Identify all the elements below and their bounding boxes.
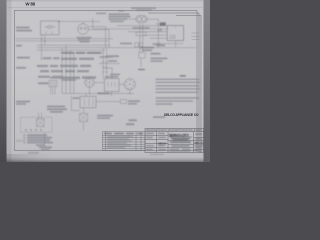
wire: vertical drops from V1 leads bbox=[106, 27, 110, 48]
notes heading bbox=[180, 75, 186, 77]
label: mid marks bbox=[120, 43, 132, 45]
arrow to external line 4 bbox=[23, 142, 26, 144]
svg-text:W 88: W 88 bbox=[25, 2, 35, 7]
node at TB1 corner bbox=[58, 21, 59, 22]
capacitor pair C1 C2 bbox=[102, 48, 108, 79]
parts list table bbox=[103, 132, 146, 151]
wire: motor to control unit bbox=[94, 82, 104, 84]
wire: V1 right leads bbox=[88, 27, 109, 30]
wire: verticals to motor group bbox=[62, 45, 74, 93]
label: X2 caption bbox=[128, 100, 140, 102]
junction node bbox=[89, 93, 90, 94]
svg-text:DELCO APPLIANCE CO: DELCO APPLIANCE CO bbox=[164, 113, 199, 117]
wire: bus into enclosure bbox=[128, 24, 167, 67]
sheet number label W-88 bbox=[25, 2, 35, 7]
arrow to external line 2 bbox=[23, 137, 26, 139]
junction node bbox=[160, 25, 161, 26]
label: pilot light bbox=[131, 7, 156, 9]
wire: lower junction bus bbox=[62, 93, 134, 95]
switch S1 bbox=[156, 23, 166, 26]
resistor R3 bbox=[139, 53, 146, 59]
terminal strip X2 bbox=[121, 100, 127, 104]
diamond arrow node bbox=[16, 140, 24, 142]
junction node on bus bbox=[41, 58, 42, 59]
manufacturer stamp bbox=[164, 113, 199, 117]
label: relay K1 name bbox=[98, 92, 110, 94]
wire: lamp branch bbox=[128, 18, 158, 20]
indicator lamp symbol in enclosure bbox=[37, 119, 45, 127]
label: bottom caption bbox=[39, 146, 52, 148]
wire: circle feeds bbox=[90, 87, 130, 96]
label: bus row 5 bbox=[38, 76, 96, 81]
label: left TO text bbox=[16, 101, 30, 103]
arrow to external line 1 bbox=[23, 134, 26, 136]
parts table header text bbox=[104, 133, 143, 148]
wire: X1 drop bbox=[83, 108, 85, 131]
wire: below T2 bbox=[158, 41, 183, 48]
junction node on bus bbox=[44, 40, 45, 41]
label: K2 name bbox=[106, 55, 119, 57]
label: bus row 3 bbox=[37, 65, 91, 67]
wire: J1 pin leads bbox=[51, 87, 55, 95]
resistor block under lamps bbox=[136, 32, 146, 36]
motor B1 bbox=[85, 78, 95, 88]
label: line voltage bbox=[17, 57, 30, 59]
company logo SERVO-CITY bbox=[169, 133, 192, 140]
contacts inside K1 bbox=[85, 98, 94, 106]
label: small tick bbox=[16, 45, 22, 47]
label: under titleblock bbox=[150, 154, 164, 156]
svg-text:WD-21: WD-21 bbox=[194, 142, 203, 146]
fuse F1 inside TB1 bbox=[45, 25, 56, 28]
terminal dots in enclosure bbox=[25, 129, 42, 131]
wire: top bus from terminal box bbox=[59, 21, 100, 23]
label: top middle block bbox=[109, 13, 130, 15]
contact bar bbox=[103, 67, 113, 69]
junction node bbox=[111, 93, 112, 94]
contact b inside T2 bbox=[173, 35, 175, 38]
label: bus row 2 bbox=[43, 57, 94, 60]
label: R3 marks bbox=[138, 69, 145, 71]
label: squiggle above table bbox=[129, 119, 138, 121]
label: mid text 3 lines bbox=[47, 106, 65, 108]
wire: mid bus to enclosure bbox=[93, 26, 168, 29]
label: small note bbox=[96, 13, 106, 15]
wire: K2 drop bbox=[111, 68, 113, 78]
wire: vertical feed at x92.8 bbox=[92, 19, 94, 30]
wire: enclosure feeds bbox=[39, 113, 42, 119]
label: X1 caption bbox=[97, 115, 113, 117]
wire: K1 output to right bbox=[96, 101, 121, 103]
relay K1 bbox=[80, 96, 96, 107]
text smudge layer bbox=[16, 7, 200, 153]
title block texts bbox=[146, 129, 204, 152]
label: under frame bbox=[28, 152, 39, 154]
pin stub on T2 bbox=[175, 26, 177, 28]
label: input terminals bbox=[16, 27, 30, 29]
label: stamp fragment bbox=[153, 116, 165, 118]
wire: TB1 down leads bbox=[42, 35, 45, 59]
contactor CR1 bbox=[135, 43, 143, 47]
indicator X1 bbox=[80, 114, 88, 122]
label: J1 name bbox=[50, 77, 62, 79]
wire: right vertical drop bbox=[157, 19, 159, 47]
label: lamp caption bbox=[133, 27, 150, 29]
label: bus row 1 bbox=[62, 52, 101, 54]
connector J1 bbox=[49, 80, 57, 86]
pin terminals of TB1 bbox=[46, 31, 52, 33]
arrow to external line 3 bbox=[23, 139, 26, 141]
label: control unit name bbox=[105, 76, 118, 78]
wire: K1 feeds bbox=[71, 94, 86, 111]
junction node bbox=[129, 93, 130, 94]
junction node on bus bbox=[41, 38, 42, 39]
pilot lamps DS1 DS2 bbox=[136, 16, 147, 23]
control unit box M bbox=[105, 79, 120, 92]
label: R3 value bbox=[140, 47, 154, 49]
power unit box T2 bbox=[167, 26, 183, 41]
label: TO cable bbox=[38, 82, 49, 84]
label: marks near relay bbox=[73, 97, 80, 99]
label: bus row 4 bbox=[40, 70, 89, 72]
wire: left horizontal bus lines bbox=[16, 38, 114, 40]
generator G1 bbox=[124, 79, 135, 90]
wire: control unit to generator bbox=[119, 83, 124, 85]
terminal box TB1 bbox=[41, 21, 60, 35]
dashed control enclosure bbox=[21, 117, 53, 132]
marks inside control unit bbox=[108, 82, 115, 87]
bridge wire bbox=[99, 63, 120, 65]
contact a inside T2 bbox=[170, 35, 172, 38]
junction node bbox=[160, 28, 161, 29]
label: V1 socket bbox=[77, 37, 92, 39]
title block bbox=[145, 129, 204, 153]
label: arrow row captions bbox=[27, 134, 47, 136]
notes paragraph 2 bbox=[156, 97, 200, 98]
svg-text:MM NI: MM NI bbox=[158, 141, 166, 145]
tube V1 (dual element) bbox=[78, 22, 89, 34]
label: T2 caption bbox=[156, 44, 165, 46]
notes paragraph 1 bbox=[156, 79, 200, 80]
wire: drop below enclosure bbox=[44, 132, 46, 146]
